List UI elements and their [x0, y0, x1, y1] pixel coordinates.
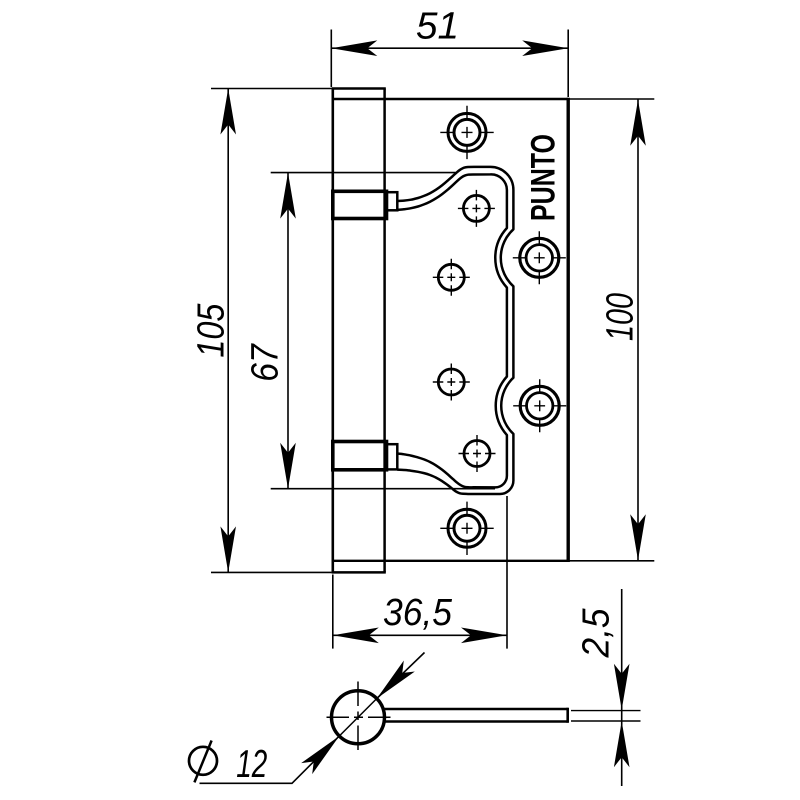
side view: diameter diagonal line [339, 699, 377, 737]
hole H2 [458, 190, 495, 227]
side view: pin centerlines [327, 716, 391, 718]
hole H1 top (countersunk) [440, 106, 493, 159]
big hole B2 (countersunk) [513, 379, 566, 432]
hole H6 bottom (countersunk) [440, 502, 493, 555]
svg-text:PUNTO: PUNTO [524, 134, 562, 221]
barrel bottom cap line [333, 560, 385, 562]
svg-text:2,5: 2,5 [576, 608, 618, 659]
dimension 2,5: dimension line [621, 589, 623, 786]
hole H5 [459, 435, 496, 472]
dimension 51: arrows [331, 40, 377, 56]
side view: pin circle [332, 691, 385, 744]
inner leaf contour offset (inner) edge [397, 174, 507, 487]
dimension 2,5: arrows [614, 664, 630, 710]
side view: leaf bar [384, 708, 568, 723]
hole H3 [433, 259, 470, 296]
bottom mounting tab [333, 442, 398, 470]
dimension 105: dimension line [227, 89, 229, 573]
dimension 2,5: extension lines [571, 710, 641, 712]
dimension 105: extension lines [211, 88, 332, 90]
dimension 36,5: dimension line [333, 634, 507, 636]
inner leaf contour outer edge [397, 167, 513, 494]
svg-text:51: 51 [416, 6, 459, 48]
hole H4 [433, 364, 470, 401]
svg-text:67: 67 [245, 343, 287, 382]
dimension 36,5: arrows [333, 628, 379, 644]
dimension 67: extension lines [271, 172, 456, 174]
dimension 51: dimension line [331, 47, 568, 49]
dimension 100: extension lines [568, 98, 654, 100]
svg-text:12: 12 [236, 743, 267, 786]
diameter leader: lower arrow [301, 731, 345, 775]
svg-text:100: 100 [600, 293, 642, 341]
dimension 36,5: extension lines [332, 575, 334, 649]
big hole B1 (countersunk) [513, 231, 566, 284]
dimension 105: arrows [220, 89, 236, 135]
dimension 51: extension lines [330, 30, 332, 88]
hinge plate outline [333, 98, 568, 562]
dimension 100: arrows [630, 100, 646, 146]
dimension 100: dimension line [637, 99, 639, 561]
dimension 67: arrows [280, 173, 296, 219]
svg-text:36,5: 36,5 [383, 592, 453, 634]
top mounting tab [333, 191, 398, 218]
svg-text:105: 105 [191, 303, 233, 358]
diameter symbol [189, 741, 217, 783]
diameter leader: lower shaft [200, 736, 340, 783]
dimension 67: dimension line [287, 173, 289, 489]
hinge barrel (knuckle) outline [332, 89, 386, 573]
diameter leader: upper arrow [371, 660, 415, 704]
diameter leader: upper shaft [377, 653, 425, 699]
